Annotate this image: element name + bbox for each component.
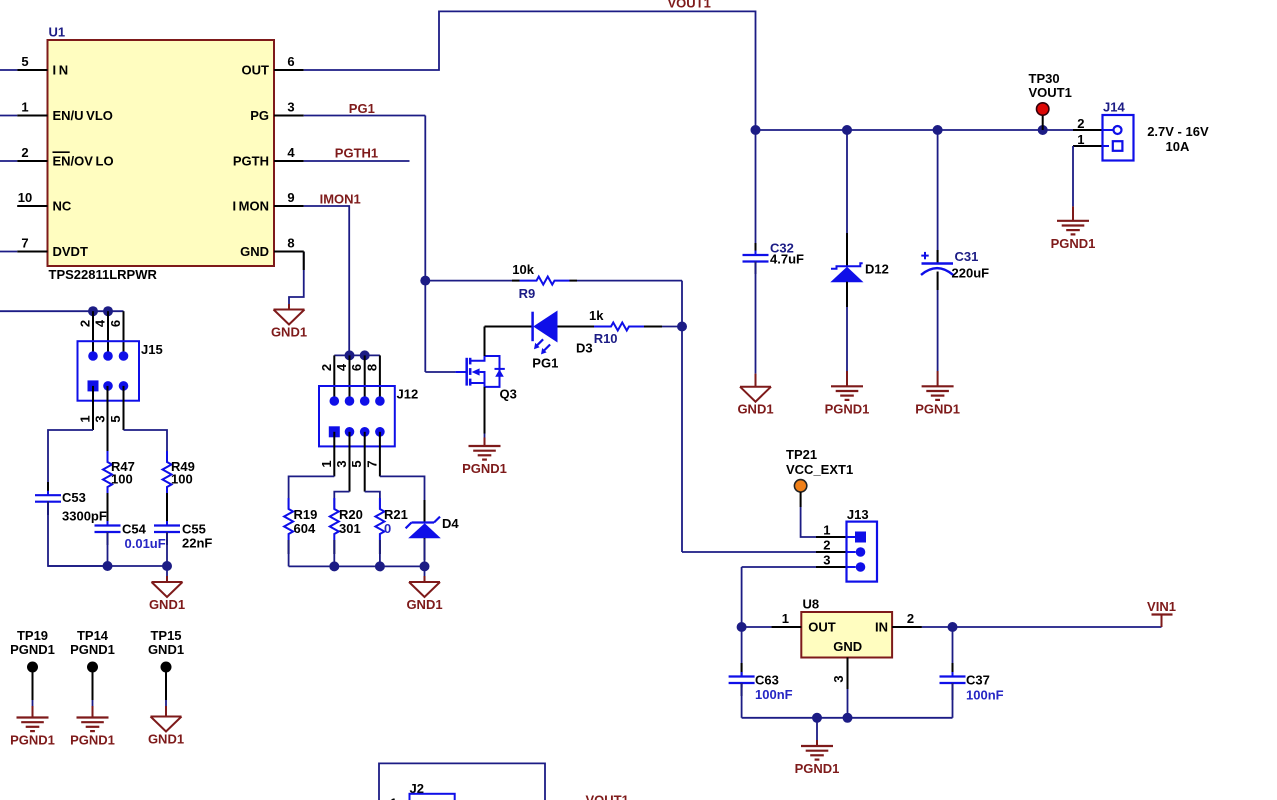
svg-text:301: 301	[339, 521, 361, 536]
svg-text:2: 2	[1077, 116, 1084, 131]
svg-text:PGTH: PGTH	[233, 154, 269, 169]
svg-text:10: 10	[18, 190, 32, 205]
svg-text:100: 100	[171, 472, 193, 487]
svg-text:6: 6	[108, 320, 123, 327]
svg-text:D3: D3	[576, 341, 593, 356]
svg-text:TP15: TP15	[150, 628, 181, 643]
svg-text:3: 3	[287, 100, 294, 115]
svg-text:C37: C37	[966, 673, 990, 688]
svg-text:PGND1: PGND1	[795, 761, 840, 776]
svg-text:VIN1: VIN1	[1147, 599, 1176, 614]
svg-text:GND: GND	[240, 244, 269, 259]
svg-text:3: 3	[334, 460, 349, 467]
svg-text:DVDT: DVDT	[53, 244, 88, 259]
svg-text:TP30: TP30	[1029, 71, 1060, 86]
svg-text:100: 100	[111, 472, 133, 487]
svg-text:PGND1: PGND1	[10, 642, 55, 657]
svg-text:VCC_EXT1: VCC_EXT1	[786, 462, 853, 477]
svg-text:PG: PG	[250, 108, 269, 123]
svg-text:C63: C63	[755, 673, 779, 688]
svg-text:2: 2	[823, 538, 830, 553]
svg-text:VOUT1: VOUT1	[1029, 85, 1072, 100]
svg-text:GND1: GND1	[271, 325, 307, 340]
svg-text:10k: 10k	[512, 262, 534, 277]
svg-text:C54: C54	[122, 522, 147, 537]
svg-text:220uF: 220uF	[952, 266, 990, 281]
svg-text:Q3: Q3	[500, 387, 517, 402]
svg-text:PGND1: PGND1	[70, 733, 115, 748]
svg-text:R20: R20	[339, 507, 363, 522]
svg-text:PGND1: PGND1	[10, 733, 55, 748]
svg-text:VOUT1: VOUT1	[668, 0, 711, 11]
svg-text:PG1: PG1	[349, 101, 375, 116]
svg-text:5: 5	[21, 54, 28, 69]
svg-text:PGND1: PGND1	[462, 461, 507, 476]
svg-text:2: 2	[319, 364, 334, 371]
svg-text:7: 7	[364, 460, 379, 467]
svg-text:PGTH1: PGTH1	[335, 146, 378, 161]
svg-text:1k: 1k	[589, 308, 604, 323]
svg-text:2: 2	[78, 320, 93, 327]
svg-text:GND1: GND1	[148, 732, 184, 747]
svg-text:6: 6	[349, 364, 364, 371]
svg-text:1: 1	[319, 460, 334, 467]
svg-text:2: 2	[907, 611, 914, 626]
svg-text:9: 9	[287, 190, 294, 205]
svg-text:OUT: OUT	[808, 620, 836, 635]
svg-text:1: 1	[782, 611, 789, 626]
svg-text:GND: GND	[833, 639, 862, 654]
svg-text:C53: C53	[62, 490, 86, 505]
svg-text:5: 5	[108, 415, 123, 422]
svg-text:4: 4	[287, 145, 295, 160]
svg-text:D12: D12	[865, 262, 889, 277]
svg-text:4.7uF: 4.7uF	[770, 252, 804, 267]
svg-text:4: 4	[93, 319, 108, 327]
svg-text:D4: D4	[442, 516, 459, 531]
svg-text:J13: J13	[847, 507, 869, 522]
svg-text:3: 3	[93, 415, 108, 422]
svg-text:22nF: 22nF	[182, 536, 212, 551]
svg-text:0.01uF: 0.01uF	[125, 536, 166, 551]
svg-text:5: 5	[349, 460, 364, 467]
svg-text:3: 3	[823, 553, 830, 568]
svg-text:PG1: PG1	[532, 356, 558, 371]
svg-text:0: 0	[384, 521, 391, 536]
svg-text:C55: C55	[182, 522, 206, 537]
svg-text:I MON: I MON	[232, 199, 269, 214]
svg-text:J15: J15	[141, 342, 163, 357]
svg-text:NC: NC	[53, 199, 72, 214]
svg-text:TPS22811LRPWR: TPS22811LRPWR	[49, 267, 158, 282]
svg-text:3300pF: 3300pF	[62, 509, 107, 524]
svg-text:GND1: GND1	[149, 597, 185, 612]
svg-text:8: 8	[364, 364, 379, 371]
svg-text:2: 2	[21, 145, 28, 160]
svg-text:GND1: GND1	[406, 597, 442, 612]
svg-text:GND1: GND1	[737, 402, 773, 417]
svg-text:7: 7	[21, 236, 28, 251]
svg-text:1: 1	[823, 523, 830, 538]
svg-text:PGND1: PGND1	[70, 642, 115, 657]
svg-text:EN/U VLO: EN/U VLO	[53, 108, 113, 123]
svg-text:R19: R19	[294, 507, 318, 522]
svg-text:TP19: TP19	[17, 628, 48, 643]
svg-text:R9: R9	[519, 286, 536, 301]
svg-text:TP14: TP14	[77, 628, 109, 643]
svg-text:IMON1: IMON1	[320, 192, 361, 207]
svg-text:J12: J12	[397, 387, 419, 402]
svg-text:U1: U1	[49, 25, 66, 40]
svg-text:R21: R21	[384, 507, 408, 522]
svg-text:4: 4	[334, 363, 349, 371]
svg-text:U8: U8	[803, 597, 820, 612]
svg-text:PGND1: PGND1	[825, 402, 870, 417]
svg-text:2.7V - 16V: 2.7V - 16V	[1147, 124, 1209, 139]
svg-text:1: 1	[78, 415, 93, 422]
svg-text:OUT: OUT	[242, 63, 270, 78]
svg-text:3: 3	[831, 675, 846, 682]
svg-text:EN/OV LO: EN/OV LO	[53, 154, 114, 169]
svg-text:R10: R10	[594, 331, 618, 346]
svg-text:8: 8	[287, 236, 294, 251]
svg-text:6: 6	[287, 54, 294, 69]
svg-text:GND1: GND1	[148, 642, 184, 657]
svg-text:10A: 10A	[1166, 139, 1190, 154]
svg-text:1: 1	[390, 796, 397, 800]
svg-text:1: 1	[21, 100, 28, 115]
svg-text:604: 604	[294, 521, 316, 536]
svg-text:C31: C31	[955, 249, 979, 264]
svg-text:TP21: TP21	[786, 447, 817, 462]
svg-text:PGND1: PGND1	[915, 402, 960, 417]
svg-text:PGND1: PGND1	[1051, 236, 1096, 251]
svg-text:100nF: 100nF	[966, 688, 1004, 703]
svg-text:100nF: 100nF	[755, 687, 793, 702]
svg-text:1: 1	[1077, 132, 1084, 147]
svg-text:VOUT1: VOUT1	[586, 793, 629, 800]
svg-text:J14: J14	[1103, 100, 1125, 115]
svg-text:IN: IN	[875, 620, 888, 635]
svg-text:I N: I N	[53, 63, 69, 78]
